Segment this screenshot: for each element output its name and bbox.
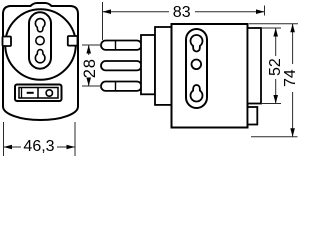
side switch block: [248, 107, 258, 125]
dim 28 arrow up: [86, 45, 91, 54]
dim 74 line bottom seg: [292, 92, 294, 137]
dim 46,3 line left seg: [4, 146, 22, 148]
svg-text:83: 83: [173, 4, 191, 21]
dim 83 line right seg: [195, 11, 265, 13]
dim 46,3 arrow right: [67, 145, 76, 150]
dim 52 line bottom seg: [275, 79, 277, 104]
side faceplate slab: [248, 28, 262, 104]
dim 74 ext top: [249, 23, 298, 25]
switch S1 outer: [15, 85, 62, 102]
dim 46,3 line right seg: [57, 146, 75, 148]
dim 52 ext bottom: [261, 103, 281, 105]
dim 83 arrow right: [256, 9, 265, 14]
front view body: [3, 3, 78, 120]
side stadium: [186, 29, 207, 108]
right tab: [68, 36, 78, 46]
pin 1 sleeve line: [115, 41, 117, 50]
dim 74 ext bottom: [251, 136, 298, 138]
side slab A: [141, 35, 155, 94]
front hole top keyhole: [35, 19, 45, 32]
side hole bottom keyhole: [191, 85, 203, 102]
switch O mark: [46, 90, 52, 96]
switch rocker edge: [21, 88, 23, 98]
svg-text:74: 74: [282, 69, 299, 87]
dim 83 ext right: [264, 6, 266, 16]
side pin 2: [101, 61, 142, 70]
dim 52 ext top: [261, 27, 281, 29]
switch divider: [37, 88, 39, 99]
dim 46,3 ext line left: [3, 122, 5, 156]
dim 46,3 arrow left: [4, 145, 13, 150]
side slab B: [155, 27, 172, 105]
side main body: [172, 24, 248, 128]
dim 74 arrow up: [290, 24, 295, 33]
side hole middle: [192, 60, 202, 70]
front hole bottom keyhole: [35, 50, 45, 63]
side hole top keyhole: [191, 35, 203, 52]
dim 52 arrow down: [273, 95, 278, 104]
dim 74 line top seg: [292, 24, 294, 64]
dim 83 ext left: [102, 2, 104, 40]
dim 28 ext bottom: [82, 85, 102, 87]
dim 83 line left seg: [103, 11, 170, 13]
dim 83 arrow left: [103, 9, 112, 14]
side pin 3: [101, 82, 142, 91]
dim 52 arrow up: [273, 28, 278, 37]
dim 28 line top seg: [88, 45, 90, 55]
left tab: [3, 37, 12, 47]
front hole middle: [36, 36, 44, 44]
dim 52 line top seg: [275, 28, 277, 56]
switch S1 inner frame: [19, 88, 58, 99]
svg-text:28: 28: [81, 58, 99, 78]
side pin 1: [101, 41, 142, 50]
front circle face: [5, 9, 76, 80]
pin 3 sleeve line: [115, 82, 117, 91]
switch dash mark: [27, 92, 34, 94]
dim 28 ext top: [82, 44, 102, 46]
dim 28 arrow down: [86, 78, 91, 87]
dim 74 arrow down: [290, 128, 295, 137]
dim 46,3 ext line right: [74, 122, 76, 156]
dim 28 line bottom seg: [88, 79, 90, 86]
svg-text:46,3: 46,3: [23, 138, 54, 155]
front stadium socket: [29, 12, 51, 68]
